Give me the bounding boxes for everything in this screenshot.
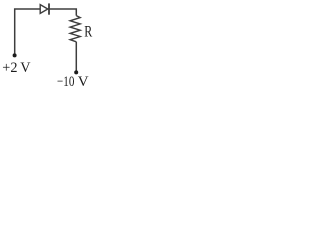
wire: resistor to -10V node bbox=[75, 42, 77, 72]
svg-text:V: V bbox=[78, 74, 89, 90]
diode D1 triangle bbox=[40, 5, 48, 14]
resistor R zigzag bbox=[70, 16, 80, 42]
wire: diode cathode to top-right corner bbox=[49, 9, 76, 16]
diode D1 cathode bar bbox=[48, 3, 50, 14]
svg-text:−10: −10 bbox=[57, 74, 74, 90]
svg-text:+2 V: +2 V bbox=[2, 60, 30, 76]
node dot -10V terminal bbox=[74, 70, 78, 74]
wire top-left: +2V node up and across to diode anode bbox=[15, 9, 41, 55]
node dot +2V terminal bbox=[13, 53, 17, 57]
svg-text:R: R bbox=[84, 24, 93, 41]
